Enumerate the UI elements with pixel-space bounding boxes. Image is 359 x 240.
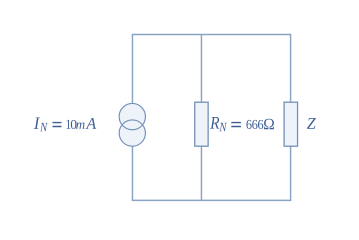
impedance Z body [284,102,297,146]
label RN = 666 ohm [210,117,274,131]
wire bottom [132,199,290,201]
wire left branch upper [131,34,133,104]
wire left branch lower [131,146,133,201]
wire middle branch upper [200,35,202,103]
wire middle branch lower [200,146,202,200]
wire right branch lower [290,146,292,201]
label Z [307,118,316,129]
label IN = 10mA [34,117,96,131]
wire top from left branch to right branch [132,34,290,36]
wire right branch upper [290,34,292,103]
current source IN: two overlapped circles [119,103,145,146]
resistor RN body [195,102,208,146]
